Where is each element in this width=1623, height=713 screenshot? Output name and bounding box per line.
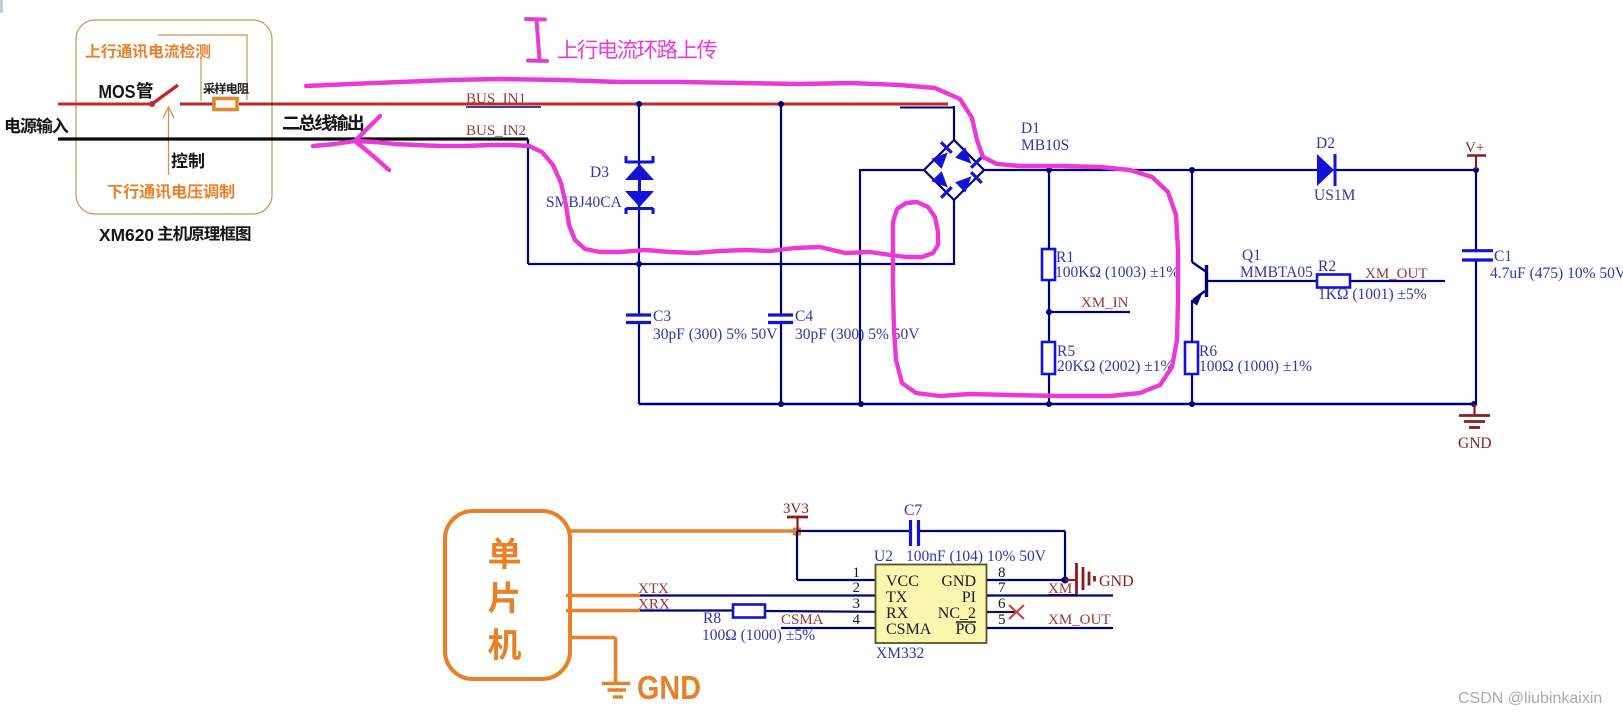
svg-text:XM620: XM620 [99,225,154,245]
sampling resistor body [214,99,237,110]
label 上行通讯电流检测 [86,43,210,58]
wire RX line left [640,609,733,611]
watermark CSDN [1458,690,1602,707]
wire bridge top lead [953,106,955,140]
svg-text:D1: D1 [1021,120,1040,137]
junction dot C4 bottom [778,401,784,407]
wire C1 top [1475,170,1477,250]
pin 7 number [998,580,1006,596]
annotation magenta arrowhead [355,116,389,170]
pin 2 number [853,580,861,596]
wire XM_IN stub [1049,311,1130,313]
label C7 value [906,548,1047,565]
label C1 value [1490,265,1623,282]
ground symbol GND right [1458,404,1492,452]
svg-text:5: 5 [998,612,1006,628]
power symbol 3V3 [783,501,809,530]
label C3 [653,308,671,325]
transistor Q1 MMBTA05 [1191,170,1207,342]
svg-text:CSMA: CSMA [781,612,824,628]
bridge rectifier D1 MB10S [924,140,984,200]
net label XM [1048,581,1077,597]
svg-text:C1: C1 [1494,248,1512,265]
MOS switch pivot dot [149,101,155,107]
power symbol V+ [1465,140,1486,169]
svg-text:US1M: US1M [1314,187,1356,204]
label 下行通讯电压调制 [108,184,234,199]
wire C4 branch upper [780,104,782,315]
pin 1 number [853,565,861,581]
svg-text:4: 4 [853,612,861,628]
junction dot R6 bottom [1189,401,1195,407]
net label XTX [638,581,669,597]
wire R1-R5 [1048,280,1050,342]
svg-text:XM_OUT: XM_OUT [1365,266,1428,282]
svg-text:PI: PI [962,589,976,606]
wire navy under red end [900,107,954,109]
svg-text:GND: GND [1099,573,1134,590]
wire VCC from 3V3 node [797,530,910,532]
net label XM_OUT top [1365,266,1428,282]
pin name NC_2 [938,605,976,622]
label R5 [1057,343,1075,360]
label R8 value [702,627,815,644]
junction dot C4 top [778,101,784,107]
label C4 value [795,326,920,343]
svg-text:XM_IN: XM_IN [1081,295,1129,311]
svg-text:2: 2 [853,580,861,596]
label XM332 [876,645,924,662]
svg-text:CSMA: CSMA [886,621,932,638]
label C1 [1494,248,1512,265]
pin 3 number [853,596,861,612]
callout line to sampling resistor [158,35,247,100]
svg-text:TX: TX [886,589,908,606]
svg-text:GND: GND [1458,435,1492,452]
wire bridge bottom lead [953,200,955,265]
label Q1 value [1240,264,1313,281]
wire R6 bottom [1191,374,1193,404]
capacitor C3 [626,315,651,323]
svg-text:1: 1 [853,565,861,581]
pin name GND [941,573,976,590]
svg-text:RX: RX [886,605,909,622]
svg-text:VCC: VCC [886,573,919,590]
junction dot V+ node [1473,167,1479,173]
svg-text:MOS: MOS [99,81,136,102]
svg-text:20KΩ (2002) ±1%: 20KΩ (2002) ±1% [1057,358,1174,375]
wire D3 branch lower [638,323,640,404]
label R2 value [1318,286,1427,303]
pin name VCC [886,573,919,590]
wire black BUS2 [58,137,528,140]
screenshot edge artifact [0,0,3,13]
svg-text:8: 8 [998,565,1006,581]
svg-text:SMBJ40CA: SMBJ40CA [546,194,623,211]
wire C7 to GND corner [920,531,1066,580]
svg-text:R8: R8 [703,610,721,627]
junction dot XM_IN [1046,309,1052,315]
label C4 [795,308,813,325]
wire BUS2 vertical drop [527,139,529,264]
svg-text:GND: GND [941,573,976,590]
label D3 [590,164,609,181]
wire orange GND stub [570,638,616,683]
label MOS管 [99,81,153,102]
svg-text:7: 7 [998,580,1006,596]
net label BUS_IN1 [466,91,541,107]
net label CSMA [781,612,824,628]
wire pin7 PI [987,594,1113,596]
svg-text:XM332: XM332 [876,645,924,662]
wire red BUS1 long segment [239,103,948,106]
label D1 value [1021,137,1069,154]
wire 3V3 down to pin1 [797,531,876,580]
svg-text:XM_OUT: XM_OUT [1048,612,1111,628]
pin 5 number [998,612,1006,628]
label R6 [1199,343,1217,360]
wire R2 to XM_OUT [1350,280,1445,282]
net label XRX [638,597,670,613]
pin 8 number [998,565,1006,581]
net label XM_IN [1081,295,1129,311]
wire pin5 PO [987,627,1113,629]
net label BUS_IN2 [466,123,526,139]
label D3 value [546,194,623,211]
label C7 [904,502,922,519]
block XM620 outline box [76,20,272,214]
svg-text:C4: C4 [795,308,813,325]
junction dot D3 top [636,101,642,107]
wire D3 branch upper [638,104,640,315]
svg-text:30pF (300) 5% 50V: 30pF (300) 5% 50V [653,326,778,343]
capacitor C7 [911,520,919,546]
svg-text:CSDN @liubinkaixin: CSDN @liubinkaixin [1458,690,1602,707]
wire bridge left lead [860,169,924,171]
wire RX line right [765,610,876,613]
svg-text:3: 3 [853,596,861,612]
svg-text:BUS_IN2: BUS_IN2 [466,123,526,139]
resistor R8 [733,605,765,618]
svg-text:100Ω (1000) ±5%: 100Ω (1000) ±5% [702,627,815,644]
wire C1 bottom [1475,261,1477,404]
label D2 value [1314,187,1356,204]
junction dot pin8 node [1062,577,1069,584]
svg-text:C3: C3 [653,308,671,325]
wire ground rail [639,403,1474,405]
wire C4 branch lower [780,323,782,404]
diode D2 US1M [1317,154,1335,186]
pin name PI [962,589,976,606]
svg-text:30pF (300) 5% 50V: 30pF (300) 5% 50V [795,326,920,343]
label D2 [1316,135,1335,152]
svg-text:V+: V+ [1465,140,1484,156]
svg-text:100KΩ (1003) ±1%: 100KΩ (1003) ±1% [1055,264,1179,281]
resistor R5 [1042,342,1055,374]
svg-text:MMBTA05: MMBTA05 [1240,264,1313,281]
capacitor C1 [1462,251,1493,260]
junction dot C1 bottom [1471,401,1477,407]
capacitor C4 [768,315,793,323]
MOS switch blade [152,85,178,104]
svg-text:GND: GND [637,669,701,706]
svg-text:D2: D2 [1316,135,1335,152]
wire R1 top [1048,170,1050,249]
ground symbol GND orange [602,669,701,706]
label R1 [1056,249,1074,266]
wire pin8 GND [987,579,1065,581]
pin name PO [956,621,976,638]
label 单片机 [488,537,521,660]
svg-text:100Ω (1000) ±1%: 100Ω (1000) ±1% [1199,358,1312,375]
label R2 [1318,258,1336,275]
title XM620主机原理框图 [99,225,250,245]
label R6 value [1199,358,1312,375]
wire V+ rail segment A [984,169,1317,171]
label R5 value [1057,358,1174,375]
resistor R2 [1317,275,1350,288]
net label XM_OUT bottom [1048,612,1111,628]
wire red BUS1 left segment [58,103,151,106]
label R8 [703,610,721,627]
svg-text:D3: D3 [590,164,609,181]
IC U2 XM332 body [876,565,987,644]
label 二总线输出 [283,114,363,131]
label GND small [1099,573,1134,590]
svg-text:1KΩ (1001) ±5%: 1KΩ (1001) ±5% [1318,286,1427,303]
wire bridge left drop [859,169,861,404]
svg-text:XTX: XTX [638,581,669,597]
svg-text:4.7uF (475) 10% 50V: 4.7uF (475) 10% 50V [1490,265,1623,282]
label Q1 [1242,247,1261,264]
pin 6 number [998,596,1006,612]
pin name TX [886,589,908,606]
junction dot left-drop bottom [858,401,864,407]
diode D3 SMBJ40CA (bidirectional TVS) [625,156,654,214]
svg-text:3V3: 3V3 [783,501,809,517]
annotation label 上行电流环路上传 [558,39,717,59]
resistor R1 [1042,249,1055,280]
label 控制 with arrow [163,107,204,175]
wire V+ rail segment B [1336,169,1476,171]
annotation magenta current loop path [306,79,1178,396]
label 电源输入 [6,117,68,133]
wire orange XRX stub [566,609,640,612]
svg-text:C7: C7 [904,502,922,519]
svg-text:U2: U2 [874,548,893,565]
wire orange XTX stub [566,594,640,597]
annotation magenta I symbol [526,19,547,61]
wire R5 bottom [1048,374,1050,404]
svg-text:PO: PO [956,621,976,638]
junction orange 3V3 node [793,528,801,536]
callout line to MOS switch [200,58,202,101]
MCU block 单片机 box [445,511,570,679]
svg-text:MB10S: MB10S [1021,137,1069,154]
wire CSMA line [781,627,876,629]
junction dot R1 top [1046,167,1052,173]
wire TX line [640,594,876,596]
label D1 [1021,120,1040,137]
wire orange 3V3 [570,529,795,532]
label 采样电阻 [203,82,249,94]
svg-text:6: 6 [998,596,1006,612]
junction dot Q1 collector top [1189,167,1195,173]
junction dot D3/AC2 rail [636,261,642,267]
svg-text:Q1: Q1 [1242,247,1261,264]
svg-text:NC_2: NC_2 [938,605,976,622]
label C3 value [653,326,778,343]
wire pin6 NC [987,611,1016,613]
wire AC2 horizontal rail [528,263,954,265]
pin 4 number [853,612,861,628]
svg-text:100nF (104) 10% 50V: 100nF (104) 10% 50V [906,548,1047,565]
label U2 [874,548,893,565]
pin name RX [886,605,909,622]
pin name CSMA [886,621,932,638]
svg-text:R2: R2 [1318,258,1336,275]
junction dot R5 bottom [1046,401,1052,407]
resistor R6 [1185,342,1198,374]
ground symbol GND at pin8 [1065,563,1095,594]
label R1 value [1055,264,1179,281]
wire red BUS1 mid segment [180,103,213,106]
svg-text:BUS_IN1: BUS_IN1 [466,91,526,107]
no-connect X on pin 6 [1009,605,1024,619]
wire Q1 base [1206,280,1317,282]
